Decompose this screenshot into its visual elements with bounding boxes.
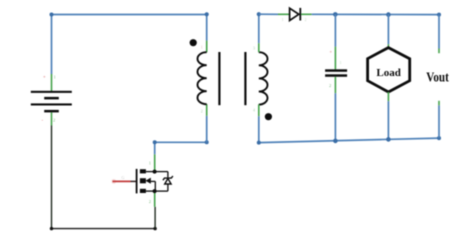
svg-text:-: - (42, 119, 44, 124)
mosfet drain node (153, 170, 157, 174)
wire top rail to diode (259, 13, 278, 15)
svg-text:1: 1 (201, 44, 203, 49)
svg-text:2: 2 (149, 199, 151, 204)
node mid-left corner (153, 140, 157, 144)
body diode branch lower vertical (167, 184, 169, 191)
capacitor bottom pin (green) (334, 77, 336, 93)
node bottom rail left corner (257, 141, 261, 145)
transformer primary bottom pin (green) (206, 104, 208, 116)
battery (31, 91, 72, 113)
svg-text:1: 1 (340, 60, 342, 65)
load top pin (green) (387, 44, 389, 48)
load hexagon (368, 48, 410, 92)
mosfet source pin (green) (154, 191, 156, 207)
wire blue drain riser (154, 142, 156, 154)
node top rail at capacitor (333, 12, 338, 17)
transformer core line left (218, 52, 220, 105)
wire right winding top blue (258, 14, 260, 43)
node top rail at left winding (205, 12, 209, 16)
wire Vout+ terminal drop (438, 15, 440, 49)
node bottom-right corner (153, 227, 156, 230)
body diode branch top (155, 171, 168, 173)
svg-text:3: 3 (253, 46, 255, 51)
svg-text:1: 1 (149, 161, 151, 166)
wire mid horizontal (155, 141, 207, 143)
diode cathode bar (299, 8, 301, 21)
load bottom pin (green) (387, 92, 389, 101)
wire capacitor top blue (334, 14, 336, 46)
battery long plate 2 (31, 103, 72, 105)
node bottom rail right corner (437, 136, 441, 140)
mosfet drain pin (green) (154, 154, 156, 171)
wire capacitor bottom blue (334, 93, 336, 141)
mosfet source contact bar (140, 189, 146, 193)
node bottom rail at capacitor (333, 139, 338, 144)
transformer phase dot primary (190, 39, 197, 46)
wire load bottom blue (387, 101, 389, 139)
body diode branch bottom (155, 190, 168, 192)
Vout- terminal pin tip (green) (438, 101, 440, 106)
node top rail right corner (437, 13, 441, 17)
wire left vertical drop to battery (51, 15, 53, 75)
battery bottom pin (green) (51, 112, 53, 125)
wire dark bottom rail (52, 228, 156, 230)
mosfet Q1 (111, 169, 172, 194)
body diode branch upper vertical (167, 172, 169, 178)
mosfet gate wire (red) (113, 180, 131, 182)
wire top rail right (312, 13, 439, 15)
battery short plate 1 (44, 97, 59, 100)
transformer secondary top pin (green) (258, 43, 260, 52)
capacitor plate bottom (325, 74, 347, 77)
node top rail at load (386, 12, 391, 17)
mosfet body tie vertical (154, 181, 156, 190)
wire bottom rail (sloped) (259, 138, 439, 143)
transformer core line right (244, 52, 246, 105)
wire left winding bottom blue (206, 116, 208, 143)
diode D1 (290, 8, 301, 21)
transformer primary top pin (green) (206, 41, 208, 53)
wire load top blue (387, 15, 389, 45)
mosfet body contact bar (140, 178, 146, 183)
capacitor plate top (325, 69, 347, 72)
svg-text:2: 2 (305, 17, 307, 22)
node top rail left corner (50, 13, 54, 17)
svg-text:2: 2 (53, 118, 55, 123)
wire dark left vertical (51, 126, 53, 229)
Vout+ terminal pin tip (green) (438, 49, 440, 54)
node mid-right corner (205, 140, 209, 144)
capacitor top pin (green) (334, 47, 336, 70)
transformer phase dot secondary (265, 113, 272, 120)
wire left winding top blue (206, 15, 208, 41)
mosfet drain link (146, 171, 155, 173)
svg-text:1: 1 (54, 75, 56, 80)
transformer secondary winding (259, 52, 268, 104)
node bottom-left corner (50, 227, 53, 230)
wire Vout- terminal riser (438, 105, 440, 138)
mosfet body tie horizontal (151, 180, 156, 182)
capacitor C1 (325, 69, 347, 77)
diode triangle (290, 8, 299, 20)
node bottom rail at load (386, 137, 391, 142)
mosfet gate open-end marker (111, 179, 116, 184)
svg-text:2: 2 (329, 83, 331, 88)
wire dark source riser (154, 207, 156, 229)
transformer secondary bottom pin (green) (258, 104, 260, 116)
node top rail at right winding (257, 12, 261, 16)
svg-text:4: 4 (253, 108, 255, 113)
svg-text:2: 2 (201, 109, 203, 114)
wire top rail left (52, 14, 207, 16)
diode cathode pin (green) (301, 13, 312, 15)
body diode cathode (zener bar) (163, 176, 173, 180)
svg-text:G: G (122, 175, 125, 180)
battery long plate top (31, 91, 72, 93)
svg-text:+: + (43, 76, 46, 81)
battery short plate bottom (44, 110, 59, 113)
svg-text:Load: Load (376, 67, 400, 79)
mosfet gate plate line (136, 169, 138, 194)
mosfet source node (153, 189, 157, 193)
mosfet body arrow (145, 178, 150, 184)
body diode triangle (165, 179, 171, 185)
battery top pin (green) (51, 74, 53, 91)
mosfet source link (146, 190, 155, 192)
svg-text:1: 1 (282, 17, 284, 22)
mosfet drain contact bar (140, 169, 146, 173)
transformer primary winding (198, 52, 207, 104)
wire right winding bottom blue (258, 116, 260, 142)
svg-text:+: + (329, 51, 332, 56)
diode anode pin (green) (278, 13, 289, 15)
svg-text:Vout: Vout (426, 70, 449, 85)
mosfet gate lead (dark) (131, 180, 137, 182)
